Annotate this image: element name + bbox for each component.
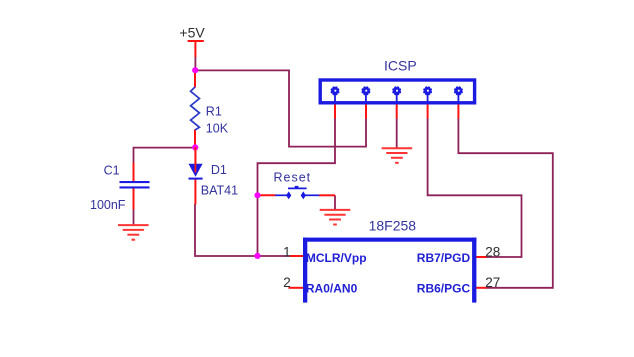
svg-text:MCLR/Vpp: MCLR/Vpp bbox=[306, 251, 367, 265]
svg-text:100nF: 100nF bbox=[90, 198, 126, 212]
svg-text:RB7/PGD: RB7/PGD bbox=[417, 251, 471, 265]
svg-text:BAT41: BAT41 bbox=[201, 183, 238, 197]
svg-text:2: 2 bbox=[283, 275, 291, 290]
svg-text:R1: R1 bbox=[206, 105, 222, 119]
svg-text:D1: D1 bbox=[211, 163, 227, 177]
svg-text:10K: 10K bbox=[206, 121, 229, 135]
svg-text:1: 1 bbox=[283, 245, 291, 260]
svg-text:18F258: 18F258 bbox=[369, 217, 417, 233]
svg-text:C1: C1 bbox=[104, 163, 120, 177]
svg-text:RB6/PGC: RB6/PGC bbox=[417, 281, 471, 295]
svg-text:Reset: Reset bbox=[274, 171, 312, 185]
svg-text:+5V: +5V bbox=[179, 25, 205, 41]
svg-text:ICSP: ICSP bbox=[384, 57, 417, 73]
svg-text:27: 27 bbox=[485, 275, 500, 290]
svg-text:RA0/AN0: RA0/AN0 bbox=[306, 281, 358, 295]
svg-text:28: 28 bbox=[485, 245, 500, 260]
